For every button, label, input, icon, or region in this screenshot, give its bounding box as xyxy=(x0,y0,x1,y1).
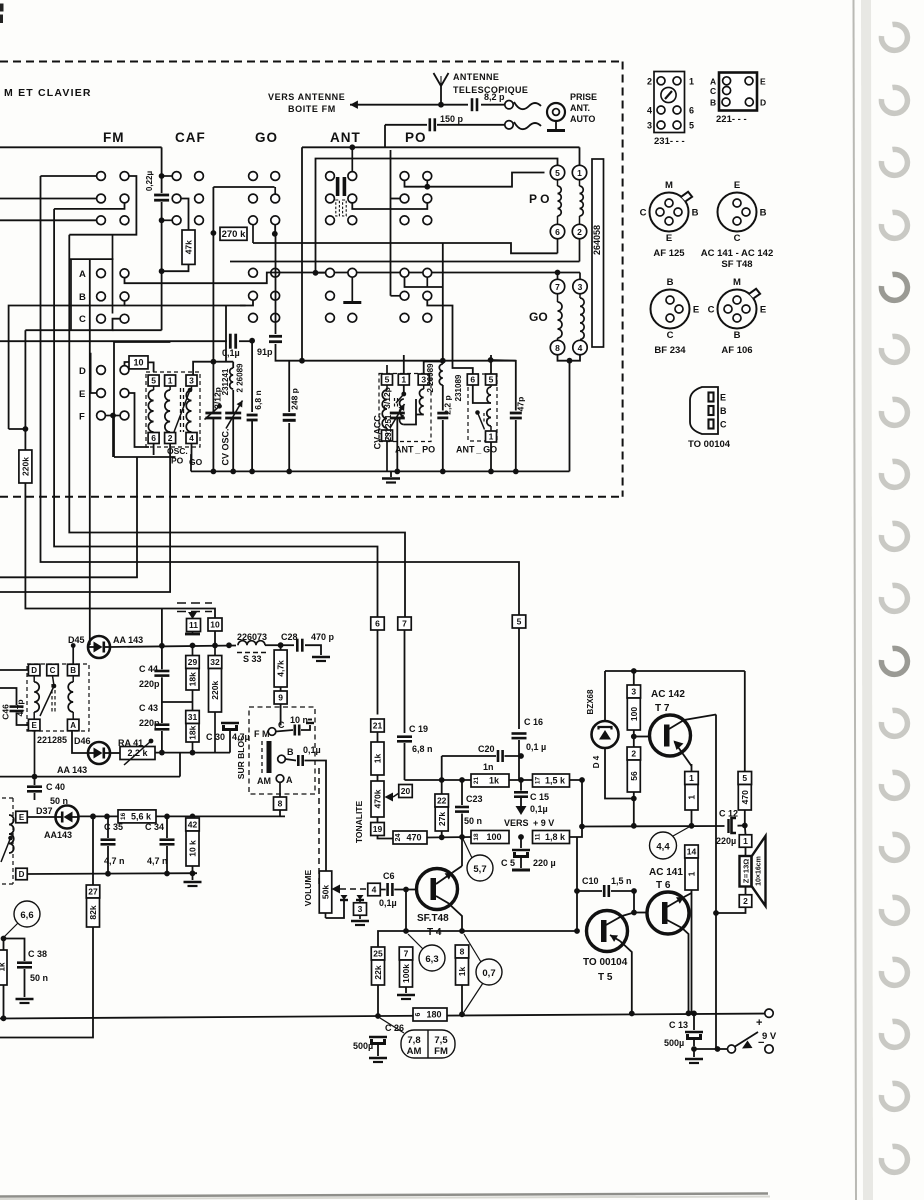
svg-text:A: A xyxy=(710,77,716,87)
wire y777 link xyxy=(179,753,181,777)
svg-text:E: E xyxy=(32,721,38,730)
oval 6,6 xyxy=(14,901,40,927)
contact FM row1 right xyxy=(120,172,129,181)
wire bus to 5 xyxy=(41,176,520,616)
node 0,1u out xyxy=(249,338,255,344)
svg-text:M ET CLAVIER: M ET CLAVIER xyxy=(4,87,92,99)
T7 collector to x716 xyxy=(669,715,716,730)
core antgo dashes xyxy=(483,413,485,423)
svg-text:BZX68: BZX68 xyxy=(586,689,595,714)
svg-text:AC 142: AC 142 xyxy=(651,689,685,700)
contact GO row3 left xyxy=(249,216,258,225)
svg-text:C: C xyxy=(734,233,741,244)
capacitor 0,1u series xyxy=(0,340,227,342)
svg-text:3: 3 xyxy=(578,282,583,292)
transistor T6 AC141 xyxy=(647,892,689,934)
svg-text:ANT _ PO: ANT _ PO xyxy=(395,445,435,455)
capacitor 0,22u chain xyxy=(161,147,163,193)
contact GO row2 right xyxy=(271,194,280,203)
node x213 y361 xyxy=(211,359,217,365)
pin 1 xyxy=(165,375,176,386)
svg-text:3: 3 xyxy=(631,687,636,697)
coil 221285 right xyxy=(72,676,74,682)
terminal 11 arrow xyxy=(188,612,197,619)
svg-text:ANT _ GO: ANT _ GO xyxy=(456,445,497,455)
pin 4 xyxy=(186,433,197,444)
resistor 32 220k xyxy=(208,656,222,669)
trimmer ANT solid bars xyxy=(336,177,340,196)
pin 6 xyxy=(148,433,159,444)
svg-text:2: 2 xyxy=(647,76,652,86)
svg-text:2: 2 xyxy=(631,749,636,759)
svg-text:TO 00104: TO 00104 xyxy=(583,957,628,968)
node 2,2p top xyxy=(440,358,446,364)
svg-text:32: 32 xyxy=(210,657,220,667)
contact FM row2 left xyxy=(97,194,106,203)
svg-text:21: 21 xyxy=(473,777,480,785)
contact ANT row4 left xyxy=(326,268,335,277)
svg-text:C: C xyxy=(79,314,86,325)
svg-text:2 26089: 2 26089 xyxy=(426,363,435,392)
wire GO coil bottom xyxy=(558,355,581,361)
box 10 xyxy=(125,362,130,366)
wire D box to edge xyxy=(0,669,29,671)
bottom page edge shadow xyxy=(0,1194,768,1197)
svg-text:0,1µ: 0,1µ xyxy=(303,745,321,755)
ground C28 xyxy=(312,656,330,659)
svg-text:5: 5 xyxy=(742,773,747,783)
arrow to +9V xyxy=(520,798,522,806)
contact ANT row2 left xyxy=(326,194,335,203)
svg-text:A: A xyxy=(70,721,76,730)
wire FM row1 right jumper xyxy=(69,176,136,235)
pinout AC141-AC142 xyxy=(718,193,757,232)
contact ANT row6 left xyxy=(326,313,335,322)
contact PO row4 right xyxy=(423,268,432,277)
contact B sur bloc xyxy=(278,755,286,763)
svg-text:AC 141: AC 141 xyxy=(649,867,683,878)
svg-text:B: B xyxy=(70,666,76,675)
wire C row xyxy=(25,319,120,331)
resistor 5 470 xyxy=(738,772,752,785)
svg-text:10 k: 10 k xyxy=(188,840,198,857)
wire C chain down xyxy=(24,330,26,450)
coil antgo upper xyxy=(490,385,492,387)
svg-text:5,6 k: 5,6 k xyxy=(131,812,152,822)
contact GO row1 right xyxy=(271,172,280,181)
block ANT-GO dashed xyxy=(468,374,497,441)
wire bottom rail xyxy=(0,1014,769,1019)
contact ANT row2 right xyxy=(348,194,357,203)
svg-text:E: E xyxy=(693,305,699,316)
connector 231 holes xyxy=(657,77,665,85)
wiper RA41 xyxy=(124,741,151,765)
coil 221285 left xyxy=(33,676,35,682)
svg-text:E: E xyxy=(760,77,766,87)
T6 emitter xyxy=(667,920,689,1013)
battery switch xyxy=(715,1046,721,1052)
svg-text:C 43: C 43 xyxy=(139,703,158,713)
svg-text:BF 234: BF 234 xyxy=(654,345,686,356)
wiper 470k xyxy=(385,793,394,802)
svg-text:AM: AM xyxy=(257,776,271,786)
contact CAF row2 left xyxy=(172,194,181,203)
T5 collector xyxy=(606,913,634,926)
svg-text:100k: 100k xyxy=(401,964,411,983)
svg-text:25: 25 xyxy=(373,949,383,959)
coil AM antenna xyxy=(9,815,14,853)
contact PO row4 left xyxy=(400,268,409,277)
wire plus rail xyxy=(582,825,725,828)
svg-text:TO 00104: TO 00104 xyxy=(688,439,731,450)
pinout AF 125 xyxy=(650,193,689,232)
wire collector rail to T5 xyxy=(462,930,577,932)
node ra41 left xyxy=(159,750,165,756)
svg-text:A: A xyxy=(286,775,293,785)
svg-text:E: E xyxy=(760,305,766,316)
wire 10 to 5 xyxy=(148,362,154,372)
jack PRISE ANT AUTO xyxy=(547,103,565,121)
transistor T4 SF T48 xyxy=(417,869,458,910)
wire y837 bus xyxy=(378,836,394,839)
svg-text:0,1 µ: 0,1 µ xyxy=(526,742,546,752)
volume wiper arrow xyxy=(332,885,341,894)
coil OSC secondary xyxy=(169,386,171,390)
wire bus to 7 xyxy=(69,235,405,617)
wire A-chain to coil 7 xyxy=(557,273,559,280)
svg-text:6,3: 6,3 xyxy=(425,954,438,965)
svg-text:ANT.: ANT. xyxy=(570,103,590,113)
pin E fm disc xyxy=(28,719,40,731)
wire T7 base lead xyxy=(634,736,650,738)
wire 220k to bus10 xyxy=(25,483,215,618)
contact PO row5 right xyxy=(423,291,432,300)
svg-text:470 p: 470 p xyxy=(311,632,335,642)
svg-text:FM: FM xyxy=(103,130,125,145)
zener chain left xyxy=(604,671,606,721)
svg-text:TONALITE: TONALITE xyxy=(354,800,364,843)
pin C fm disc xyxy=(47,664,59,676)
wire antgo 6 feed xyxy=(427,300,473,374)
wire FM row3 left to edge xyxy=(0,219,97,221)
contact A sur bloc xyxy=(276,775,284,783)
svg-text:50 n: 50 n xyxy=(464,816,482,826)
svg-text:6,8 n: 6,8 n xyxy=(253,390,263,409)
node C12 right xyxy=(742,823,748,829)
resistor 470k tone xyxy=(377,775,379,781)
capacitor 248p xyxy=(288,361,290,412)
node T7 base xyxy=(631,734,637,740)
wire 5 chain C16 xyxy=(518,628,520,729)
svg-text:E: E xyxy=(79,389,85,400)
svg-text:E: E xyxy=(666,233,672,244)
svg-text:AF 125: AF 125 xyxy=(653,248,685,259)
contact FM row2 right xyxy=(120,194,129,203)
node 220k top joint xyxy=(23,426,29,432)
svg-text:150 p: 150 p xyxy=(440,114,464,124)
contact ANT row1 left xyxy=(326,172,335,181)
trimmer CV1 arrow xyxy=(205,406,220,419)
contact GO row6 right xyxy=(271,313,280,322)
wire GO chain to rail xyxy=(569,361,571,472)
box 11 xyxy=(187,619,201,632)
svg-text:D: D xyxy=(19,870,25,879)
svg-text:M: M xyxy=(733,277,741,288)
node 91p out xyxy=(299,358,305,364)
wire 9 to switch C xyxy=(280,704,282,725)
svg-text:7: 7 xyxy=(404,949,409,959)
resistor 270k xyxy=(220,227,247,240)
bar 264058 xyxy=(592,159,604,347)
resistor 16 5,6k xyxy=(118,810,156,823)
svg-text:B: B xyxy=(760,208,767,219)
connector 221 outline xyxy=(719,73,757,111)
wire y777 xyxy=(0,776,180,778)
block D E F outline xyxy=(114,342,170,457)
svg-text:AC 141 - AC 142: AC 141 - AC 142 xyxy=(701,248,774,259)
wire A box drop xyxy=(89,259,91,592)
wire PO row2 stub bus xyxy=(391,198,401,200)
contact open circle lower xyxy=(505,121,513,129)
svg-text:D 4: D 4 xyxy=(592,755,601,768)
svg-text:1k: 1k xyxy=(373,754,383,764)
svg-text:6,8 n: 6,8 n xyxy=(412,744,433,754)
node GO coil junction xyxy=(567,358,573,364)
contact ANT row3 right xyxy=(348,216,357,225)
svg-text:264058: 264058 xyxy=(592,225,602,255)
svg-text:C: C xyxy=(278,720,285,730)
svg-text:6: 6 xyxy=(375,619,380,629)
node d45 dots xyxy=(159,643,165,649)
node rail dot xyxy=(394,469,400,475)
svg-text:50k: 50k xyxy=(321,885,331,899)
svg-text:220p: 220p xyxy=(139,718,160,728)
oval 4,4 xyxy=(650,832,677,859)
svg-text:18: 18 xyxy=(473,833,480,841)
wire GO row5 stub to B bus xyxy=(240,300,253,305)
pin D fm disc xyxy=(28,664,40,676)
node T4 base xyxy=(403,887,409,893)
resistor 22 27k xyxy=(435,794,449,807)
svg-text:22: 22 xyxy=(437,796,447,806)
wire D37 out xyxy=(79,815,119,817)
wire FM row1 left to bus xyxy=(41,175,97,177)
wire base bias rail xyxy=(378,931,406,947)
contact PO row2 right xyxy=(423,194,432,203)
coil PO right winding xyxy=(579,180,581,186)
oval 7,8 7,5 AM FM xyxy=(401,1030,455,1058)
svg-text:1k: 1k xyxy=(457,967,467,977)
svg-text:F M: F M xyxy=(254,729,270,739)
capacitor C5 220u xyxy=(520,837,522,848)
wire T6 base xyxy=(634,912,647,914)
svg-text:B: B xyxy=(734,330,741,341)
switch hook upper xyxy=(514,102,541,109)
wire 2 down long xyxy=(0,444,170,593)
svg-text:18k: 18k xyxy=(188,725,198,739)
core dashes xyxy=(180,388,182,432)
svg-text:8: 8 xyxy=(555,343,560,353)
wire antenna rail y147 xyxy=(302,146,580,148)
resistor 1 1 top xyxy=(685,772,699,785)
svg-text:C 30: C 30 xyxy=(206,732,225,742)
resistor 11 1,8k xyxy=(533,831,570,844)
coil GO circle 4 xyxy=(573,340,587,354)
svg-text:S 33: S 33 xyxy=(243,654,262,664)
wire bus to 6 xyxy=(54,209,377,617)
svg-text:C 40: C 40 xyxy=(46,782,65,792)
svg-text:7,8: 7,8 xyxy=(407,1035,420,1046)
svg-text:3: 3 xyxy=(358,904,363,914)
svg-text:20: 20 xyxy=(401,786,411,796)
transistor T7 AC142 xyxy=(650,715,691,756)
svg-text:8: 8 xyxy=(460,947,465,957)
svg-text:AM: AM xyxy=(407,1046,422,1057)
pin B fm disc xyxy=(67,664,79,676)
coil 226089 osc xyxy=(232,362,234,368)
coil OSC primary xyxy=(153,386,155,390)
wire coil6 stub xyxy=(557,239,559,254)
box 3 terminal xyxy=(354,903,367,916)
wire T4 emitter to 5,7 node xyxy=(461,837,463,866)
resistor 6 180 on rail xyxy=(413,1008,447,1021)
wire antpo 5 feed xyxy=(386,365,388,374)
contact PO row1 right xyxy=(423,172,432,181)
svg-text:180: 180 xyxy=(426,1010,441,1020)
node driver mid xyxy=(689,823,695,829)
oval 5,7 xyxy=(467,855,493,881)
wire x302 from antenna rail xyxy=(301,147,303,360)
contact GO row4 left xyxy=(249,268,258,277)
svg-text:11: 11 xyxy=(535,833,542,840)
capacitor 8,2p xyxy=(441,104,468,106)
svg-text:C 34: C 34 xyxy=(145,822,164,832)
pin 5 antpo xyxy=(382,374,393,385)
transformer 221285 dashed box xyxy=(27,664,89,731)
wire D37 in xyxy=(27,816,55,818)
svg-text:3: 3 xyxy=(647,121,652,131)
pin 5 antgo xyxy=(486,374,497,385)
pin A fm disc xyxy=(67,719,79,731)
wiper antgo xyxy=(475,410,480,415)
node rail dot xyxy=(488,469,494,475)
svg-text:21: 21 xyxy=(373,721,383,731)
contact B left xyxy=(97,292,106,301)
wire A row to GO coil xyxy=(125,273,558,284)
coil GO circle 8 xyxy=(550,340,564,354)
pin 2 xyxy=(165,433,176,444)
connector 231 outline xyxy=(654,72,685,133)
T4 emitter arrow xyxy=(436,873,453,885)
resistor 25 22k xyxy=(371,947,385,960)
wiper bar sur bloc xyxy=(267,741,272,773)
svg-text:C46: C46 xyxy=(1,704,11,720)
wire PO row1 jumper to coil 5 xyxy=(405,173,545,187)
svg-text:0,7: 0,7 xyxy=(482,968,495,979)
node rail dot xyxy=(230,469,236,475)
svg-text:AA 143: AA 143 xyxy=(57,765,87,775)
node y702 wire xyxy=(161,677,163,723)
svg-text:5: 5 xyxy=(555,168,560,178)
wire FM header rail xyxy=(0,146,162,148)
wire D46 anode xyxy=(72,731,88,753)
contact PO row1 left xyxy=(400,172,409,181)
svg-text:0,22µ: 0,22µ xyxy=(145,171,154,192)
wire FM row2 left to edge xyxy=(0,198,97,200)
contact ANT row5 left xyxy=(326,291,335,300)
svg-text:6: 6 xyxy=(151,433,156,443)
node rail dot xyxy=(249,469,255,475)
pointer to AM FM values xyxy=(380,1018,404,1033)
svg-text:C: C xyxy=(720,420,727,430)
wire zener bottom xyxy=(605,748,634,799)
oval 0,7 xyxy=(476,959,502,985)
wire tuner ground rail xyxy=(191,470,570,472)
T4 collector xyxy=(436,896,462,931)
wire 8 to A contact xyxy=(279,783,281,797)
contact E left xyxy=(97,389,106,398)
contact D left xyxy=(97,366,106,375)
trimmer CV1 3/12p xyxy=(212,362,214,412)
svg-text:BOITE FM: BOITE FM xyxy=(288,104,336,114)
oval 6,3 xyxy=(419,945,445,971)
wire ANT row4 stub bar xyxy=(351,277,353,301)
svg-text:ANT: ANT xyxy=(330,130,361,145)
svg-text:6: 6 xyxy=(689,106,694,116)
contact FM row3 left xyxy=(97,216,106,225)
box 8 terminal xyxy=(274,797,287,810)
svg-text:PRISE: PRISE xyxy=(570,92,597,102)
wire antpo 2 down xyxy=(386,441,388,471)
svg-text:5,7: 5,7 xyxy=(473,864,486,875)
svg-text:B: B xyxy=(667,277,674,288)
svg-text:4: 4 xyxy=(647,106,652,116)
coil OSC tertiary xyxy=(191,386,193,390)
diode zener BZX68 D4 xyxy=(592,721,619,748)
coil PO circle 2 xyxy=(572,224,586,238)
transformer OSC dashed box xyxy=(146,372,200,447)
wire C10 left leg xyxy=(576,837,578,931)
svg-text:T 7: T 7 xyxy=(655,703,670,714)
svg-text:24: 24 xyxy=(395,834,402,842)
node ant rail dot xyxy=(349,144,355,150)
wire 6 chain down xyxy=(377,630,379,715)
svg-text:D: D xyxy=(760,98,766,108)
box 21 terminal xyxy=(371,719,385,732)
svg-text:231- - -: 231- - - xyxy=(654,136,685,147)
svg-text:C 16: C 16 xyxy=(524,717,543,727)
svg-text:220p: 220p xyxy=(139,679,160,689)
svg-text:C 35: C 35 xyxy=(104,822,123,832)
wire y360 bus right xyxy=(302,360,516,362)
resistor 1k tone xyxy=(377,732,379,742)
wire ANT-PO jumper y209 xyxy=(352,203,427,209)
wire antpo 3 top xyxy=(424,362,443,375)
node rail dot xyxy=(286,469,292,475)
svg-text:220µ: 220µ xyxy=(716,836,736,846)
svg-text:1k: 1k xyxy=(489,776,500,786)
resistor 42 10k xyxy=(186,818,200,831)
svg-text:470: 470 xyxy=(740,790,750,804)
svg-text:6: 6 xyxy=(415,1012,422,1016)
wire osc mixer chain x213 xyxy=(212,233,214,362)
wire GO bank2 long A xyxy=(253,243,558,253)
svg-text:C 44: C 44 xyxy=(139,664,158,674)
connector TO 00104 pins xyxy=(709,393,714,402)
terminal 11 bar xyxy=(192,632,194,634)
transistor T5 TO00104 xyxy=(587,911,628,952)
contact A right xyxy=(120,269,129,278)
